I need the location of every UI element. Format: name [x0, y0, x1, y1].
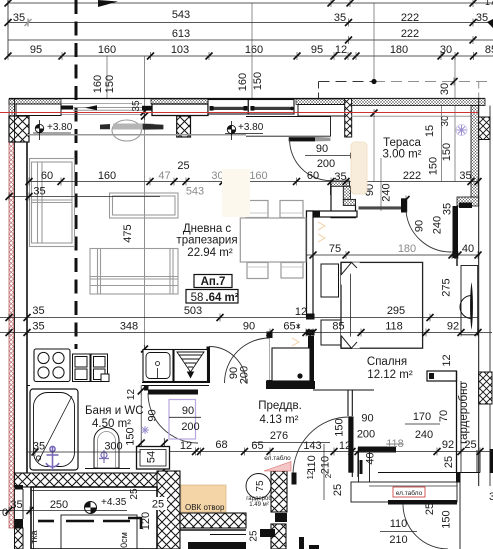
svg-text:90: 90 [414, 220, 426, 232]
terrace right wall [471, 106, 479, 201]
svg-text:12: 12 [295, 306, 307, 318]
svg-text:+3.80: +3.80 [47, 122, 73, 133]
svg-text:35: 35 [33, 186, 45, 198]
svg-text:200: 200 [357, 429, 375, 441]
orange radiator terrace [351, 142, 367, 194]
svg-text:25: 25 [424, 503, 436, 515]
svg-text:543: 543 [186, 186, 204, 198]
svg-text:276: 276 [270, 430, 288, 442]
hall/wardrobe wall [347, 390, 349, 416]
living top dims [29, 181, 478, 183]
svg-text:12: 12 [441, 354, 453, 366]
wall chunk 3 [296, 99, 346, 105]
svg-text:30: 30 [440, 44, 452, 56]
svg-text:15: 15 [424, 125, 436, 137]
section arrow top [98, 0, 118, 7]
svg-text:2: 2 [324, 473, 333, 478]
svg-text:ел.табло: ел.табло [396, 489, 423, 497]
svg-text:35: 35 [459, 170, 471, 182]
shower box hall [272, 348, 310, 381]
svg-text:35: 35 [13, 12, 25, 24]
svg-text:543: 543 [172, 9, 190, 21]
svg-text:17: 17 [485, 0, 493, 7]
svg-text:25: 25 [464, 439, 476, 451]
top wall outer line [9, 98, 485, 100]
svg-text:160: 160 [245, 44, 263, 56]
svg-text:143: 143 [303, 440, 321, 452]
faint orange arrows [292, 222, 325, 346]
svg-text:120: 120 [140, 512, 152, 530]
svg-text:60: 60 [307, 170, 319, 182]
svg-text:35: 35 [32, 305, 44, 317]
svg-text:300: 300 [104, 441, 122, 453]
faucet symbol purple [46, 446, 59, 470]
svg-text:+4.35: +4.35 [101, 497, 127, 508]
level markers [33, 120, 73, 140]
svg-text:30: 30 [211, 170, 223, 182]
svg-text:35: 35 [334, 171, 346, 183]
wall below bedroom (south) [358, 447, 396, 453]
svg-text:222: 222 [401, 12, 419, 24]
bath door leaf open (vertical) + arc [207, 347, 211, 384]
Ap.7 label [194, 275, 232, 288]
wall chunk 2 (window box) [151, 99, 208, 104]
svg-text:35: 35 [131, 100, 142, 112]
svg-text:200: 200 [239, 366, 251, 384]
svg-text:222: 222 [401, 28, 419, 40]
pier column between doors [345, 99, 352, 138]
svg-text:тка: тка [29, 530, 39, 543]
svg-text:25: 25 [249, 530, 260, 542]
svg-text:25: 25 [129, 488, 140, 500]
thin extension lines [107, 3, 374, 353]
svg-text:160: 160 [237, 73, 249, 91]
purple door tag box [169, 400, 196, 440]
svg-text:12: 12 [339, 440, 351, 452]
dim line y332.5 [0, 332, 492, 334]
el.tablo red box right [393, 487, 425, 497]
svg-text:90: 90 [182, 405, 194, 417]
svg-text:35: 35 [32, 321, 44, 333]
svg-text:180: 180 [390, 44, 408, 56]
wall chunk 1 [9, 99, 61, 104]
svg-text:25: 25 [177, 160, 189, 172]
svg-text:0: 0 [2, 507, 8, 519]
svg-text:110: 110 [306, 455, 318, 473]
svg-text:150: 150 [428, 157, 440, 175]
svg-text:Преддв.: Преддв. [258, 400, 302, 412]
svg-text:170: 170 [413, 411, 431, 423]
dim line y317.5 [0, 317, 478, 319]
svg-text:25: 25 [332, 484, 344, 496]
stair lower wall horizontal [180, 513, 246, 528]
svg-text:40: 40 [462, 243, 474, 255]
svg-text:90: 90 [361, 413, 373, 425]
terrace top wall [352, 99, 485, 106]
svg-text:70: 70 [438, 410, 450, 422]
right columns [479, 117, 490, 140]
svg-text:503: 503 [184, 305, 202, 317]
svg-text:240: 240 [432, 216, 444, 234]
svg-text:35: 35 [489, 491, 493, 503]
bedroom north wall + door [359, 206, 402, 209]
svg-text:180: 180 [398, 243, 416, 255]
thick dashed section line vertical [75, 0, 78, 349]
svg-text:275: 275 [441, 278, 453, 296]
curtain/lamp under window [112, 120, 141, 141]
svg-text:250: 250 [50, 499, 68, 511]
svg-text:95: 95 [311, 44, 323, 56]
mid column [177, 116, 191, 137]
washbasin [94, 428, 119, 468]
dashed boundary (floor above) [319, 81, 375, 83]
svg-text:90: 90 [147, 409, 159, 421]
svg-text:475: 475 [122, 224, 134, 242]
svg-text:118: 118 [385, 321, 403, 333]
hall/kitchen wall with door x269 [267, 332, 273, 339]
window boxes D and E [208, 100, 248, 115]
svg-text:65: 65 [251, 440, 263, 452]
svg-text:ел.табло: ел.табло [264, 454, 291, 462]
svg-text:90: 90 [316, 143, 328, 155]
svg-text:47: 47 [158, 170, 170, 182]
svg-text:4.13 m²: 4.13 m² [260, 414, 299, 426]
svg-text:200: 200 [181, 421, 199, 433]
svg-text:Баня и WC: Баня и WC [85, 405, 144, 417]
bedroom east wall bold [453, 206, 459, 258]
bath door tag + arc labels [125, 354, 454, 463]
svg-text:103: 103 [171, 44, 189, 56]
svg-text:ОВК отвор: ОВК отвор [185, 503, 225, 512]
svg-text:85: 85 [485, 44, 493, 56]
svg-text:150: 150 [441, 510, 453, 528]
left wall bottom [15, 485, 24, 490]
svg-text:65: 65 [283, 321, 295, 333]
bath south wall hatch band [15, 473, 168, 487]
entry platform right [351, 482, 457, 502]
svg-text:40: 40 [365, 452, 377, 464]
svg-text:22.94 m²: 22.94 m² [187, 247, 233, 259]
svg-text:68: 68 [215, 439, 227, 451]
svg-text:110: 110 [390, 518, 408, 530]
svg-text:613: 613 [172, 28, 190, 40]
svg-text:222: 222 [403, 170, 421, 182]
svg-text:35: 35 [33, 441, 45, 453]
svg-text:58: 58 [191, 292, 204, 304]
svg-text:118: 118 [386, 438, 404, 450]
svg-text:75: 75 [329, 243, 341, 255]
svg-text:12: 12 [306, 470, 315, 479]
svg-text:92: 92 [447, 321, 459, 333]
living/terrace door pocket box [27, 134, 246, 136]
svg-text:92: 92 [442, 439, 454, 451]
svg-text:150: 150 [252, 72, 264, 90]
terrace door leaf [289, 137, 315, 141]
svg-text:200: 200 [317, 158, 335, 170]
svg-text:12.12 m²: 12.12 m² [367, 369, 413, 381]
snowflakes [141, 125, 467, 435]
svg-text:30: 30 [439, 83, 451, 95]
fan box [174, 350, 208, 382]
left wall [14, 99, 16, 473]
bedroom closets [321, 264, 339, 297]
svg-text:.64 m²: .64 m² [205, 292, 238, 304]
hall rotated dims [306, 410, 455, 529]
svg-text:Дневна с: Дневна с [183, 223, 232, 235]
kitchen/bath wall [142, 382, 209, 384]
svg-text:25: 25 [443, 456, 455, 468]
svg-text:160: 160 [98, 170, 116, 182]
svg-text:348: 348 [120, 321, 138, 333]
svg-text:160: 160 [98, 44, 116, 56]
svg-text:25: 25 [152, 499, 164, 511]
svg-text:0см: 0см [119, 532, 129, 548]
dining table with chairs [240, 201, 305, 279]
svg-text:54: 54 [146, 451, 158, 463]
washing machine [137, 447, 170, 470]
bedroom south area / wardrobe walls [427, 371, 457, 381]
hall south vertical hatch [271, 471, 287, 512]
svg-text:35: 35 [442, 203, 454, 215]
sink [143, 350, 173, 382]
svg-text:90: 90 [243, 321, 255, 333]
rotated dims terrace right [122, 125, 454, 297]
svg-text:210: 210 [320, 456, 332, 474]
svg-text:160: 160 [92, 75, 104, 93]
svg-text:85: 85 [332, 321, 344, 333]
dim line y255 bedroom top [306, 254, 480, 256]
svg-text:Тераса: Тераса [383, 137, 421, 149]
svg-text:+3.80: +3.80 [238, 122, 264, 133]
svg-text:240: 240 [381, 183, 393, 201]
window zone 1 [61, 104, 142, 115]
svg-text:240: 240 [415, 429, 433, 441]
dashed platform inside [38, 520, 130, 523]
svg-text:60: 60 [41, 170, 53, 182]
svg-text:1.49 м²: 1.49 м² [249, 502, 268, 508]
OVK box [181, 485, 226, 512]
svg-text:12: 12 [180, 440, 192, 452]
svg-text:12: 12 [126, 389, 137, 401]
bedroom window box right [461, 266, 478, 335]
svg-text:95: 95 [30, 44, 42, 56]
svg-text:210: 210 [389, 534, 407, 546]
stairwell vertical wall [157, 471, 180, 549]
wall L near terrace door [331, 181, 350, 186]
grid bubble 75 [246, 474, 271, 499]
stair room [31, 487, 157, 549]
svg-text:150: 150 [104, 75, 116, 93]
svg-text:295: 295 [387, 305, 405, 317]
terrace bottom step wall [457, 197, 479, 206]
svg-text:гардеробно: гардеробно [458, 382, 470, 444]
dim line y451/442 hall [170, 451, 492, 453]
svg-text:35: 35 [476, 12, 488, 24]
svg-text:12: 12 [335, 44, 347, 56]
living/hall vertical wall [307, 211, 314, 317]
svg-text:150: 150 [441, 143, 453, 161]
svg-text:150: 150 [334, 418, 346, 436]
svg-text:Спалня: Спалня [367, 356, 407, 368]
svg-text:75: 75 [255, 480, 266, 492]
svg-text:Ап.7: Ап.7 [201, 276, 226, 288]
right building edge [478, 99, 480, 487]
living/bedroom horizontal wall [307, 211, 358, 217]
svg-text:3.00 m²: 3.00 m² [383, 149, 422, 161]
svg-text:трапезария: трапезария [176, 235, 237, 247]
svg-text:35: 35 [334, 12, 346, 24]
svg-text:35: 35 [10, 499, 22, 511]
svg-text:150: 150 [125, 427, 137, 445]
svg-text:160: 160 [249, 170, 267, 182]
corner column left [9, 116, 29, 142]
